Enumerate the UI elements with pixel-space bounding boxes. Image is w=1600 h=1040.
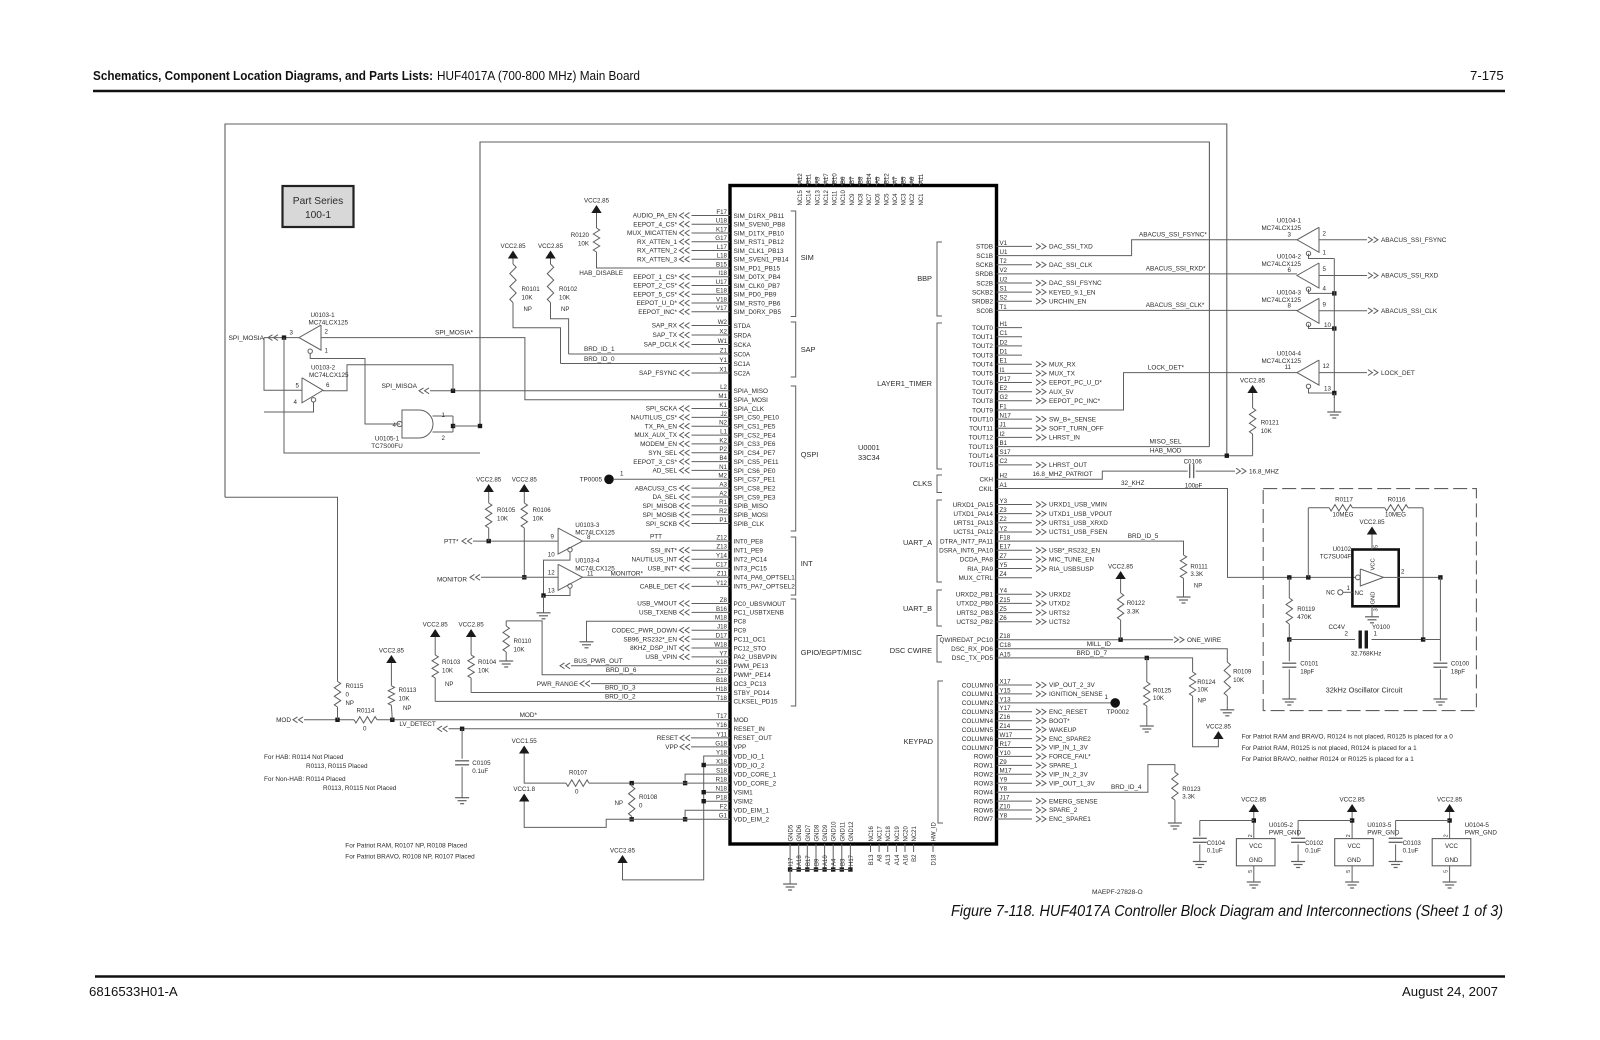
svg-text:C0101: C0101 bbox=[1300, 661, 1319, 668]
svg-text:MUX_CTRL: MUX_CTRL bbox=[959, 575, 994, 582]
svg-text:B18: B18 bbox=[716, 677, 728, 684]
svg-text:10K: 10K bbox=[497, 516, 509, 523]
svg-text:ENC_SPARE2: ENC_SPARE2 bbox=[1049, 736, 1091, 743]
svg-text:R17: R17 bbox=[1000, 741, 1012, 748]
svg-text:2: 2 bbox=[442, 435, 446, 442]
svg-text:MAEPF-27828-O: MAEPF-27828-O bbox=[1092, 889, 1143, 896]
svg-text:LOCK_DET*: LOCK_DET* bbox=[1148, 364, 1185, 371]
svg-text:R0114: R0114 bbox=[357, 708, 375, 715]
svg-text:BUS_PWR_OUT: BUS_PWR_OUT bbox=[574, 658, 623, 665]
svg-text:E18: E18 bbox=[716, 288, 728, 295]
svg-text:TOUT6: TOUT6 bbox=[972, 380, 993, 387]
svg-text:PTT: PTT bbox=[650, 533, 662, 540]
svg-text:Z11: Z11 bbox=[717, 571, 728, 578]
svg-text:EEPOT_2_CS*: EEPOT_2_CS* bbox=[633, 283, 677, 290]
svg-text:QSPI: QSPI bbox=[801, 450, 819, 459]
svg-text:B7: B7 bbox=[850, 176, 856, 184]
svg-text:Part Series: Part Series bbox=[293, 196, 343, 207]
svg-text:SPI_SCKA: SPI_SCKA bbox=[646, 406, 678, 413]
svg-text:1: 1 bbox=[1374, 631, 1378, 638]
svg-text:10K: 10K bbox=[1261, 428, 1273, 435]
svg-text:3: 3 bbox=[290, 330, 294, 337]
svg-text:RX_ATTEN_3: RX_ATTEN_3 bbox=[637, 256, 677, 263]
svg-text:SPI_MOSIA*: SPI_MOSIA* bbox=[435, 329, 474, 336]
svg-text:U0105-2: U0105-2 bbox=[1269, 822, 1294, 829]
svg-text:NC: NC bbox=[1355, 590, 1364, 597]
svg-text:5: 5 bbox=[1346, 870, 1352, 873]
svg-text:10K: 10K bbox=[1233, 677, 1245, 684]
svg-text:GND: GND bbox=[1347, 857, 1361, 864]
svg-text:SPIA_MOSI: SPIA_MOSI bbox=[734, 397, 769, 404]
svg-text:A1: A1 bbox=[1000, 482, 1008, 489]
svg-text:CLKS: CLKS bbox=[913, 479, 932, 488]
svg-text:M18: M18 bbox=[715, 615, 728, 622]
svg-text:P1: P1 bbox=[719, 517, 727, 524]
svg-text:B11: B11 bbox=[807, 173, 813, 184]
svg-text:COLUMN5: COLUMN5 bbox=[962, 727, 994, 734]
svg-text:U0103-3: U0103-3 bbox=[575, 522, 600, 529]
svg-text:10K: 10K bbox=[533, 516, 545, 523]
svg-text:TX_PA_EN: TX_PA_EN bbox=[645, 423, 678, 430]
svg-text:PC8: PC8 bbox=[734, 619, 747, 626]
svg-text:W1: W1 bbox=[718, 338, 728, 345]
svg-text:Z14: Z14 bbox=[1000, 723, 1011, 730]
svg-text:VDD_CORE_1: VDD_CORE_1 bbox=[734, 771, 777, 778]
svg-text:V17: V17 bbox=[716, 305, 728, 312]
svg-text:MILL_ID: MILL_ID bbox=[1087, 641, 1112, 648]
svg-text:IGNITION_SENSE: IGNITION_SENSE bbox=[1049, 691, 1103, 698]
svg-text:Z6: Z6 bbox=[1000, 615, 1008, 622]
svg-text:NC5: NC5 bbox=[884, 193, 890, 206]
svg-text:VCC1.8: VCC1.8 bbox=[513, 786, 535, 793]
svg-text:MUX_TX: MUX_TX bbox=[1049, 371, 1076, 378]
svg-text:U0102: U0102 bbox=[1333, 546, 1352, 553]
svg-text:MC74LCX125: MC74LCX125 bbox=[309, 372, 349, 379]
svg-text:W17: W17 bbox=[1000, 732, 1013, 739]
svg-text:Y8: Y8 bbox=[1000, 812, 1008, 819]
svg-text:ABACUS_SSI_RXD*: ABACUS_SSI_RXD* bbox=[1146, 266, 1206, 273]
svg-text:ONE_WIRE: ONE_WIRE bbox=[1187, 637, 1221, 644]
svg-text:UTXD2_PB0: UTXD2_PB0 bbox=[956, 601, 993, 608]
svg-text:L17: L17 bbox=[717, 244, 728, 251]
svg-text:MIC_TUNE_EN: MIC_TUNE_EN bbox=[1049, 557, 1094, 564]
svg-text:STBY_PD14: STBY_PD14 bbox=[734, 690, 771, 697]
svg-text:NP: NP bbox=[445, 682, 453, 688]
svg-text:Figure 7-118. HUF4017A Control: Figure 7-118. HUF4017A Controller Block … bbox=[951, 903, 1503, 920]
svg-text:DSRA_INT6_PA10: DSRA_INT6_PA10 bbox=[939, 548, 993, 555]
svg-text:C0104: C0104 bbox=[1207, 840, 1226, 847]
svg-text:V18: V18 bbox=[716, 296, 728, 303]
svg-text:URCHIN_EN: URCHIN_EN bbox=[1049, 299, 1087, 306]
svg-text:1: 1 bbox=[1347, 586, 1351, 592]
svg-text:D18: D18 bbox=[932, 854, 938, 866]
svg-text:Y13: Y13 bbox=[1000, 696, 1012, 703]
svg-text:R0115: R0115 bbox=[346, 683, 364, 690]
svg-text:U17: U17 bbox=[716, 279, 728, 286]
svg-text:TOUT15: TOUT15 bbox=[969, 462, 994, 469]
svg-text:MC74LCX125: MC74LCX125 bbox=[1261, 225, 1301, 232]
svg-text:GND7: GND7 bbox=[806, 824, 812, 841]
svg-text:NC13: NC13 bbox=[815, 189, 821, 205]
svg-text:RESET_IN: RESET_IN bbox=[734, 726, 766, 733]
svg-text:2: 2 bbox=[325, 329, 329, 336]
svg-text:VSIM2: VSIM2 bbox=[734, 799, 754, 806]
svg-text:NC7: NC7 bbox=[867, 193, 873, 206]
svg-text:N18: N18 bbox=[716, 786, 728, 793]
svg-text:SAP_RX: SAP_RX bbox=[652, 323, 678, 330]
svg-text:R0116: R0116 bbox=[1388, 497, 1406, 504]
svg-text:Z8: Z8 bbox=[720, 597, 728, 604]
svg-text:0.1uF: 0.1uF bbox=[1403, 848, 1419, 855]
svg-text:Z2: Z2 bbox=[1000, 516, 1008, 523]
svg-text:NP: NP bbox=[615, 801, 623, 807]
svg-text:VCC2.85: VCC2.85 bbox=[1206, 724, 1232, 731]
svg-text:TOUT12: TOUT12 bbox=[969, 435, 994, 442]
svg-text:HW_ID: HW_ID bbox=[932, 822, 938, 842]
svg-text:RESET: RESET bbox=[657, 735, 678, 742]
svg-text:U0103-1: U0103-1 bbox=[311, 312, 336, 319]
svg-text:R0109: R0109 bbox=[1233, 669, 1252, 676]
svg-text:BRD_ID_2: BRD_ID_2 bbox=[605, 694, 636, 701]
svg-text:BRD_ID_3: BRD_ID_3 bbox=[605, 685, 636, 692]
svg-text:T17: T17 bbox=[716, 713, 727, 720]
svg-text:VDD_EIM_1: VDD_EIM_1 bbox=[734, 808, 770, 815]
svg-text:RESET_OUT: RESET_OUT bbox=[734, 735, 772, 742]
svg-text:R0108: R0108 bbox=[639, 794, 658, 801]
svg-text:HAB_DISABLE: HAB_DISABLE bbox=[579, 270, 623, 277]
svg-text:Y15: Y15 bbox=[1000, 687, 1012, 694]
svg-text:August 24, 2007: August 24, 2007 bbox=[1402, 984, 1498, 999]
svg-text:NC18: NC18 bbox=[886, 825, 892, 841]
svg-text:MUX_AUX_TX: MUX_AUX_TX bbox=[634, 432, 677, 439]
svg-text:Z4: Z4 bbox=[1000, 571, 1008, 578]
svg-text:T1: T1 bbox=[1000, 304, 1008, 311]
svg-text:R1: R1 bbox=[719, 499, 727, 506]
svg-text:B1: B1 bbox=[1000, 440, 1008, 447]
svg-text:SIM_PD0_PB9: SIM_PD0_PB9 bbox=[734, 292, 777, 299]
svg-text:Z5: Z5 bbox=[1000, 606, 1008, 613]
svg-text:MC74LCX125: MC74LCX125 bbox=[575, 565, 615, 572]
svg-text:ABACUS3_CS: ABACUS3_CS bbox=[635, 485, 677, 492]
svg-text:DTRA_INT7_PA11: DTRA_INT7_PA11 bbox=[940, 538, 993, 545]
svg-text:PC1_USBTXENB: PC1_USBTXENB bbox=[734, 610, 784, 617]
svg-text:B5: B5 bbox=[902, 176, 908, 184]
svg-text:A2: A2 bbox=[719, 490, 727, 497]
svg-text:COLUMN0: COLUMN0 bbox=[962, 682, 994, 689]
svg-text:VCC2.85: VCC2.85 bbox=[459, 622, 485, 629]
svg-text:2: 2 bbox=[1401, 569, 1405, 576]
svg-text:INT2_PC14: INT2_PC14 bbox=[734, 557, 768, 564]
svg-text:VCC2.85: VCC2.85 bbox=[1108, 564, 1134, 571]
svg-text:Z7: Z7 bbox=[1000, 553, 1008, 560]
svg-text:16.8_MHZ: 16.8_MHZ bbox=[1249, 468, 1279, 475]
svg-text:GND: GND bbox=[1249, 857, 1263, 864]
svg-text:PTT*: PTT* bbox=[444, 538, 459, 545]
svg-text:SIM_D0RX_PB5: SIM_D0RX_PB5 bbox=[734, 309, 782, 316]
svg-text:NAUTILUS_INT: NAUTILUS_INT bbox=[632, 556, 678, 563]
svg-text:SPI_CS5_PE11: SPI_CS5_PE11 bbox=[734, 459, 779, 466]
svg-text:Y10: Y10 bbox=[1000, 750, 1012, 757]
svg-text:URXD2: URXD2 bbox=[1049, 592, 1071, 599]
svg-text:INT3_PC15: INT3_PC15 bbox=[734, 566, 768, 573]
svg-text:2: 2 bbox=[1323, 230, 1327, 237]
svg-text:F1: F1 bbox=[1000, 403, 1008, 410]
svg-text:10MEG: 10MEG bbox=[1333, 512, 1354, 519]
svg-text:SSI_INT*: SSI_INT* bbox=[650, 547, 677, 554]
svg-text:AD_SEL: AD_SEL bbox=[652, 468, 677, 475]
svg-text:32kHz Oscillator Circuit: 32kHz Oscillator Circuit bbox=[1326, 686, 1403, 695]
svg-text:10K: 10K bbox=[1153, 695, 1165, 702]
svg-text:U0103-5: U0103-5 bbox=[1367, 822, 1392, 829]
svg-text:Y16: Y16 bbox=[716, 722, 728, 729]
svg-text:SPI_CS8_PE2: SPI_CS8_PE2 bbox=[734, 485, 776, 492]
svg-text:SPIB_MISO: SPIB_MISO bbox=[734, 503, 768, 510]
svg-text:KEYPAD: KEYPAD bbox=[904, 737, 933, 746]
svg-text:G18: G18 bbox=[715, 740, 727, 747]
svg-text:NC20: NC20 bbox=[904, 825, 910, 841]
svg-text:32_KHZ: 32_KHZ bbox=[1121, 480, 1145, 487]
svg-text:16.8_MHZ_PATRIOT: 16.8_MHZ_PATRIOT bbox=[1033, 471, 1093, 478]
svg-text:10K: 10K bbox=[478, 668, 490, 675]
svg-text:DSC_TX_PD5: DSC_TX_PD5 bbox=[952, 655, 994, 662]
svg-text:ABACUS_SSI_FSYNC: ABACUS_SSI_FSYNC bbox=[1381, 237, 1447, 244]
svg-text:SRDA: SRDA bbox=[734, 332, 752, 339]
svg-text:B6: B6 bbox=[841, 176, 847, 184]
svg-text:URTS1_USB_XRXD: URTS1_USB_XRXD bbox=[1049, 520, 1108, 527]
svg-text:A5: A5 bbox=[876, 176, 882, 184]
svg-text:Y4: Y4 bbox=[1000, 588, 1008, 595]
svg-text:GND8: GND8 bbox=[815, 824, 821, 841]
svg-text:B15: B15 bbox=[716, 261, 728, 268]
svg-text:B17: B17 bbox=[806, 855, 812, 866]
svg-text:B8: B8 bbox=[858, 176, 864, 184]
svg-text:5: 5 bbox=[1444, 870, 1450, 873]
svg-text:4: 4 bbox=[1323, 286, 1327, 293]
svg-text:AUDIO_PA_EN: AUDIO_PA_EN bbox=[633, 213, 678, 220]
svg-text:K18: K18 bbox=[716, 659, 728, 666]
svg-text:MC74LCX125: MC74LCX125 bbox=[575, 530, 615, 537]
svg-text:For Patriot RAM and BRAVO, R01: For Patriot RAM and BRAVO, R0124 is not … bbox=[1242, 734, 1454, 741]
svg-text:6: 6 bbox=[326, 382, 330, 389]
svg-text:18pF: 18pF bbox=[1451, 669, 1465, 676]
svg-text:Y14: Y14 bbox=[716, 553, 728, 560]
svg-text:QWIREDAT_PC10: QWIREDAT_PC10 bbox=[939, 637, 993, 644]
svg-text:T2: T2 bbox=[1000, 258, 1008, 265]
svg-text:Z18: Z18 bbox=[1000, 633, 1011, 640]
svg-text:SC1B: SC1B bbox=[976, 253, 993, 260]
svg-text:ROW6: ROW6 bbox=[974, 807, 994, 814]
svg-text:HUF4017A (700-800 MHz) Main Bo: HUF4017A (700-800 MHz) Main Board bbox=[437, 68, 640, 83]
svg-text:X1: X1 bbox=[719, 366, 727, 373]
svg-text:ENC_SPARE1: ENC_SPARE1 bbox=[1049, 816, 1091, 823]
svg-text:GPIO/EGPT/MISC: GPIO/EGPT/MISC bbox=[801, 648, 863, 657]
svg-text:UCTS1_PA12: UCTS1_PA12 bbox=[953, 529, 993, 536]
svg-text:C0102: C0102 bbox=[1305, 840, 1324, 847]
svg-text:9: 9 bbox=[551, 534, 555, 541]
svg-text:WAKEUP: WAKEUP bbox=[1049, 727, 1076, 734]
svg-text:9: 9 bbox=[1323, 301, 1327, 308]
svg-text:VCC2.85: VCC2.85 bbox=[1240, 378, 1266, 385]
svg-text:P2: P2 bbox=[719, 446, 727, 453]
svg-text:SAP_TX: SAP_TX bbox=[652, 332, 677, 339]
svg-text:T18: T18 bbox=[716, 695, 727, 702]
svg-text:TOUT10: TOUT10 bbox=[969, 416, 994, 423]
svg-text:R0105: R0105 bbox=[497, 507, 516, 514]
svg-text:SB96_RS232*_EN: SB96_RS232*_EN bbox=[623, 636, 677, 643]
svg-text:U0104-1: U0104-1 bbox=[1277, 218, 1302, 225]
svg-text:0: 0 bbox=[346, 692, 350, 699]
svg-text:N1: N1 bbox=[719, 464, 727, 471]
svg-text:V2: V2 bbox=[1000, 267, 1008, 274]
svg-text:B10: B10 bbox=[833, 173, 839, 184]
svg-text:BRD_ID_7: BRD_ID_7 bbox=[1077, 650, 1108, 657]
svg-text:GND12: GND12 bbox=[849, 821, 855, 842]
svg-text:470K: 470K bbox=[1297, 614, 1312, 621]
svg-text:INT5_PA7_OPTSEL2: INT5_PA7_OPTSEL2 bbox=[734, 584, 796, 591]
svg-text:D17: D17 bbox=[716, 633, 728, 640]
svg-text:A18: A18 bbox=[797, 855, 803, 866]
svg-text:2: 2 bbox=[1444, 834, 1450, 837]
svg-text:SPI_CS2_PE4: SPI_CS2_PE4 bbox=[734, 432, 776, 439]
svg-text:4: 4 bbox=[393, 422, 397, 429]
svg-text:R0117: R0117 bbox=[1335, 497, 1353, 504]
svg-text:SAP_FSYNC: SAP_FSYNC bbox=[639, 370, 677, 377]
svg-text:10: 10 bbox=[1324, 322, 1331, 329]
svg-text:VDD_CORE_2: VDD_CORE_2 bbox=[734, 780, 777, 787]
svg-text:EEPOT_4_CS*: EEPOT_4_CS* bbox=[633, 221, 677, 228]
svg-text:VCC2.85: VCC2.85 bbox=[1359, 519, 1385, 526]
svg-text:NC: NC bbox=[1326, 590, 1335, 597]
svg-text:M2: M2 bbox=[718, 473, 727, 480]
svg-text:ROW1: ROW1 bbox=[974, 763, 994, 770]
svg-text:Y7: Y7 bbox=[719, 650, 727, 657]
svg-text:C0100: C0100 bbox=[1451, 661, 1470, 668]
svg-text:B14: B14 bbox=[867, 173, 873, 184]
svg-text:STDA: STDA bbox=[734, 323, 752, 330]
svg-text:8KHZ_DSP_INT: 8KHZ_DSP_INT bbox=[630, 645, 677, 652]
svg-text:LHRST_OUT: LHRST_OUT bbox=[1049, 462, 1087, 469]
svg-text:B16: B16 bbox=[716, 606, 728, 613]
svg-text:C0105: C0105 bbox=[472, 760, 491, 767]
svg-text:SCKB2: SCKB2 bbox=[972, 289, 993, 296]
svg-text:C18: C18 bbox=[1000, 642, 1012, 649]
svg-text:B3: B3 bbox=[840, 858, 846, 866]
svg-text:R0113, R0115 Not Placed: R0113, R0115 Not Placed bbox=[323, 785, 397, 792]
svg-text:PWR_RANGE: PWR_RANGE bbox=[537, 681, 578, 688]
svg-text:SRDB: SRDB bbox=[975, 271, 993, 278]
svg-text:PWR_GND: PWR_GND bbox=[1367, 830, 1400, 837]
svg-text:C1: C1 bbox=[1000, 330, 1008, 337]
svg-text:VPP: VPP bbox=[734, 744, 747, 751]
svg-text:R0110: R0110 bbox=[514, 638, 532, 645]
svg-text:SOFT_TURN_OFF: SOFT_TURN_OFF bbox=[1049, 425, 1104, 432]
svg-text:VCC2.85: VCC2.85 bbox=[512, 477, 538, 484]
svg-text:PC12_STO: PC12_STO bbox=[734, 645, 767, 652]
svg-text:A10: A10 bbox=[823, 855, 829, 866]
svg-text:EMERG_SENSE: EMERG_SENSE bbox=[1049, 798, 1098, 805]
svg-text:PWM*_PE14: PWM*_PE14 bbox=[734, 672, 772, 679]
svg-text:R0120: R0120 bbox=[571, 232, 590, 239]
svg-text:USB_VPIN: USB_VPIN bbox=[645, 654, 677, 661]
svg-text:NC3: NC3 bbox=[902, 193, 908, 206]
svg-text:Z10: Z10 bbox=[1000, 803, 1011, 810]
svg-text:USB_INT*: USB_INT* bbox=[648, 566, 678, 573]
svg-text:C0106: C0106 bbox=[1184, 459, 1203, 466]
svg-text:100-1: 100-1 bbox=[305, 210, 331, 221]
svg-text:NC1: NC1 bbox=[919, 193, 925, 206]
svg-text:NC8: NC8 bbox=[858, 193, 864, 206]
svg-text:OC3_PC13: OC3_PC13 bbox=[734, 681, 767, 688]
svg-text:VCC2.85: VCC2.85 bbox=[1241, 797, 1267, 804]
svg-text:Z15: Z15 bbox=[1000, 597, 1011, 604]
svg-text:SIM_RST1_PB12: SIM_RST1_PB12 bbox=[734, 239, 785, 246]
svg-text:R0125: R0125 bbox=[1153, 688, 1172, 695]
svg-text:BRD_ID_0: BRD_ID_0 bbox=[584, 356, 615, 363]
svg-text:SC2A: SC2A bbox=[734, 370, 751, 377]
svg-text:PC9: PC9 bbox=[734, 628, 747, 635]
svg-text:VPP: VPP bbox=[665, 744, 678, 751]
svg-text:TOUT13: TOUT13 bbox=[969, 444, 994, 451]
svg-text:F18: F18 bbox=[1000, 535, 1011, 542]
svg-text:U0105-1: U0105-1 bbox=[375, 436, 400, 443]
svg-text:Z9: Z9 bbox=[1000, 759, 1008, 766]
svg-text:STDB: STDB bbox=[976, 244, 993, 251]
svg-text:K2: K2 bbox=[719, 437, 727, 444]
svg-text:GND9: GND9 bbox=[823, 824, 829, 841]
svg-text:12: 12 bbox=[548, 570, 555, 577]
svg-text:SPI_CS9_PE3: SPI_CS9_PE3 bbox=[734, 494, 776, 501]
svg-text:CLKSEL_PD15: CLKSEL_PD15 bbox=[734, 699, 778, 706]
svg-text:VCC2.85: VCC2.85 bbox=[1340, 797, 1366, 804]
svg-text:L18: L18 bbox=[717, 253, 728, 260]
svg-text:Schematics, Component Location: Schematics, Component Location Diagrams,… bbox=[93, 68, 433, 83]
svg-text:R0107: R0107 bbox=[569, 770, 588, 777]
svg-text:NP: NP bbox=[346, 701, 354, 707]
svg-text:SW_B+_SENSE: SW_B+_SENSE bbox=[1049, 416, 1096, 423]
svg-text:ROW3: ROW3 bbox=[974, 781, 994, 788]
svg-text:For HAB: R0114 Not Placed: For HAB: R0114 Not Placed bbox=[264, 754, 344, 761]
svg-text:B9: B9 bbox=[815, 858, 821, 866]
svg-text:A12: A12 bbox=[798, 173, 804, 184]
svg-text:SPIB_MOSI: SPIB_MOSI bbox=[734, 512, 769, 519]
svg-text:ENC_RESET: ENC_RESET bbox=[1049, 709, 1087, 716]
svg-text:L1: L1 bbox=[720, 428, 727, 435]
svg-text:S17: S17 bbox=[1000, 449, 1012, 456]
svg-text:H18: H18 bbox=[716, 686, 728, 693]
svg-text:ROW7: ROW7 bbox=[974, 816, 994, 823]
svg-text:C0103: C0103 bbox=[1403, 840, 1422, 847]
svg-text:TOUT0: TOUT0 bbox=[972, 325, 993, 332]
svg-text:R0101: R0101 bbox=[522, 286, 541, 293]
svg-text:Y12: Y12 bbox=[716, 580, 728, 587]
svg-text:For Non-HAB: R0114 Placed: For Non-HAB: R0114 Placed bbox=[264, 776, 346, 783]
svg-text:I18: I18 bbox=[718, 270, 727, 277]
svg-text:11: 11 bbox=[587, 570, 594, 577]
svg-text:NC14: NC14 bbox=[807, 189, 813, 205]
svg-text:SPI_CS1_PE5: SPI_CS1_PE5 bbox=[734, 424, 776, 431]
svg-text:HAB_MOD: HAB_MOD bbox=[1150, 448, 1182, 455]
svg-text:VDD_IO_1: VDD_IO_1 bbox=[734, 753, 765, 760]
svg-text:VIP_IN_1_3V: VIP_IN_1_3V bbox=[1049, 745, 1088, 752]
svg-text:3: 3 bbox=[1288, 231, 1292, 238]
svg-text:2: 2 bbox=[1345, 631, 1349, 638]
svg-text:SPI_CS3_PE6: SPI_CS3_PE6 bbox=[734, 441, 776, 448]
svg-text:VIP_IN_2_3V: VIP_IN_2_3V bbox=[1049, 772, 1088, 779]
svg-text:E17: E17 bbox=[1000, 544, 1012, 551]
svg-text:AUX_5V: AUX_5V bbox=[1049, 389, 1074, 396]
svg-text:RX_ATTEN_1: RX_ATTEN_1 bbox=[637, 239, 677, 246]
svg-text:MOD: MOD bbox=[734, 717, 749, 724]
